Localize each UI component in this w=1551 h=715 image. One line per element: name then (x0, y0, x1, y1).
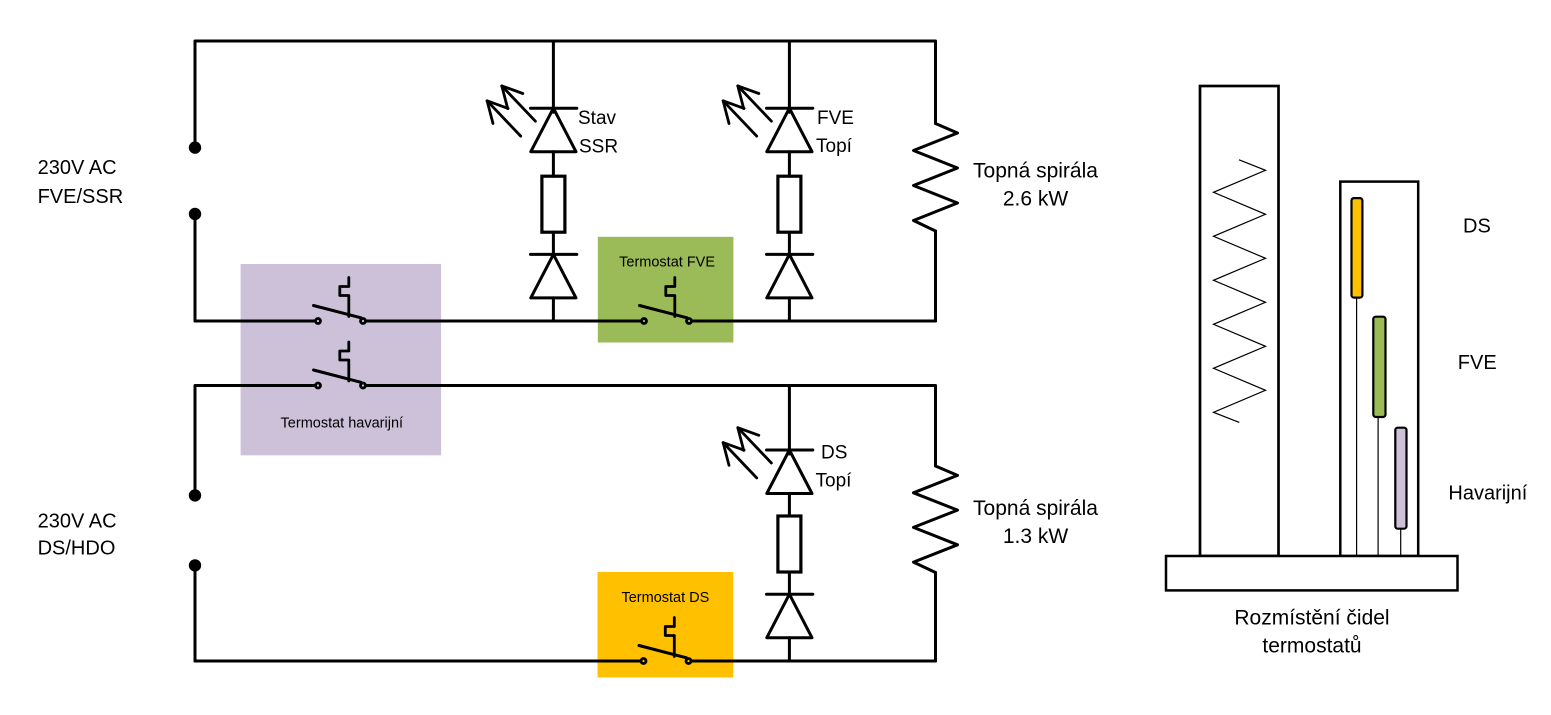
LED FVE Topi triangle (767, 108, 812, 152)
svg-text:Stav: Stav (578, 108, 617, 129)
svg-text:1.3 kW: 1.3 kW (1003, 525, 1069, 548)
switch Termostat FVE right terminal (687, 319, 692, 324)
resistor DS Topi (box) (778, 516, 801, 572)
resistor Topna spirala 1.3kW (zigzag) (914, 466, 958, 573)
wire: circuit2 bottom segment A (195, 660, 640, 663)
LED FVE Topi light arrow 2 (723, 101, 757, 136)
svg-text:230V AC: 230V AC (38, 511, 117, 533)
resistor Stav SSR (box) (542, 176, 565, 232)
sensor havarijni (lavender bar) (1395, 428, 1406, 529)
node: source2 terminal lower (dot) (189, 559, 201, 571)
sensor well tube (1340, 182, 1418, 556)
highlight box: Termostat havarijni (lavender) (241, 264, 442, 455)
wire: DS Topi LED to resistor (788, 494, 791, 517)
svg-text:Termostat DS: Termostat DS (621, 590, 709, 606)
switch Termostat havarijni #2 lever (314, 370, 362, 382)
svg-text:FVE: FVE (817, 108, 854, 129)
wire: DS Topi diode to bottom (788, 638, 791, 661)
svg-text:FVE: FVE (1458, 352, 1497, 374)
diode Stav SSR triangle (531, 254, 576, 298)
svg-text:termostatů: termostatů (1262, 635, 1361, 658)
svg-text:Topí: Topí (816, 471, 853, 492)
switch Termostat havarijni #2 thermal actuator (340, 342, 349, 381)
wire: FVE Topi diode to bottom (788, 298, 791, 321)
switch Termostat DS left terminal (641, 659, 646, 664)
switch Termostat havarijni #1 right terminal (361, 319, 366, 324)
wire: circuit2 right vertical lower (934, 573, 937, 662)
resistor FVE Topi (box) (778, 176, 801, 232)
svg-text:Topná spirála: Topná spirála (973, 497, 1098, 520)
diode DS Topi triangle (767, 594, 812, 638)
LED DS Topi triangle (767, 450, 812, 494)
wire: circuit2 top segment A (195, 386, 315, 490)
sensor lead DS (1356, 290, 1358, 556)
svg-text:DS/HDO: DS/HDO (38, 538, 116, 560)
wire: DS Topi resistor to diode (788, 572, 791, 594)
switch Termostat havarijni #1 lever (314, 306, 362, 318)
svg-text:Termostat havarijní: Termostat havarijní (281, 415, 404, 431)
diode FVE Topi triangle (767, 254, 812, 298)
resistor Topna spirala 2.6kW (zigzag) (914, 124, 958, 232)
wire: circuit1 bottom segment A (195, 320, 315, 323)
heating element inside tank (zigzag) (1214, 160, 1266, 423)
svg-text:Topí: Topí (816, 136, 853, 157)
LED DS Topi cathode bar (767, 449, 813, 452)
highlight box: Termostat FVE (green) (598, 237, 734, 343)
wire: FVE Topi resistor to diode (788, 232, 791, 254)
svg-text:2.6 kW: 2.6 kW (1003, 188, 1069, 211)
LED FVE Topi cathode bar (767, 107, 813, 110)
svg-text:Termostat FVE: Termostat FVE (619, 254, 715, 270)
wire: FVE Topi LED to resistor (788, 152, 791, 177)
svg-text:230V AC: 230V AC (38, 157, 117, 179)
sensor lead FVE (1377, 410, 1379, 556)
wire: circuit1 bottom segment C (692, 320, 935, 323)
LED DS Topi light arrow 2 (723, 443, 757, 478)
diode Stav SSR bar (531, 253, 577, 256)
switch Termostat havarijni #2 right terminal (361, 383, 366, 388)
sensor FVE (green bar) (1373, 317, 1385, 417)
wire: Stav SSR branch top vertical (552, 41, 555, 112)
svg-text:Topná spirála: Topná spirála (973, 160, 1098, 183)
LED DS Topi light arrow 1 (738, 428, 772, 463)
diode DS Topi bar (767, 593, 813, 596)
wire: circuit2 left vertical below source (194, 565, 197, 661)
wire: circuit2 top segment B (366, 386, 935, 467)
switch Termostat FVE lever (640, 306, 688, 318)
wire: Stav SSR resistor to diode (552, 232, 555, 254)
wire: circuit1 left vertical below source (194, 214, 197, 321)
svg-text:Rozmístění čidel: Rozmístění čidel (1234, 607, 1389, 630)
wire: circuit2 bottom segment B (692, 660, 936, 663)
diode FVE Topi bar (767, 253, 813, 256)
sensor DS (orange bar) (1352, 198, 1363, 298)
switch Termostat havarijni #2 left terminal (316, 383, 321, 388)
svg-text:DS: DS (821, 443, 847, 464)
wire: Stav SSR LED to resistor (552, 152, 555, 177)
switch Termostat FVE left terminal (642, 319, 647, 324)
wire: circuit1 top horizontal (195, 41, 936, 142)
switch Termostat DS lever (639, 646, 687, 658)
LED Stav SSR light arrow 2 (487, 101, 521, 136)
base plate (1166, 556, 1458, 590)
LED Stav SSR cathode bar (531, 107, 577, 110)
node: source1 terminal lower (dot) (189, 208, 201, 220)
switch Termostat havarijni #1 thermal actuator (340, 278, 349, 317)
LED FVE Topi light arrow 1 (738, 86, 772, 121)
node: source2 terminal upper (dot) (189, 489, 201, 501)
wire: circuit1 bottom segment B (366, 320, 640, 323)
switch Termostat DS right terminal (686, 659, 691, 664)
svg-text:FVE/SSR: FVE/SSR (38, 186, 124, 208)
svg-text:DS: DS (1463, 215, 1491, 237)
LED Stav SSR triangle (531, 108, 576, 152)
wire: DS Topi branch top vertical (788, 386, 791, 455)
sensor lead havarijni (1400, 522, 1402, 556)
wire: circuit1 right vertical lower (934, 231, 937, 321)
switch Termostat havarijni #1 left terminal (316, 319, 321, 324)
svg-text:SSR: SSR (579, 137, 618, 158)
svg-text:Havarijní: Havarijní (1448, 483, 1527, 505)
switch Termostat DS thermal actuator (665, 618, 674, 657)
wire: FVE Topi branch top vertical (788, 41, 791, 112)
node: source1 terminal upper (dot) (189, 141, 201, 153)
highlight box: Termostat DS (orange) (598, 572, 734, 677)
boiler tank body (1200, 86, 1279, 556)
LED Stav SSR light arrow 1 (502, 86, 536, 121)
switch Termostat FVE thermal actuator (666, 278, 675, 317)
wire: Stav SSR diode to bottom (552, 298, 555, 321)
